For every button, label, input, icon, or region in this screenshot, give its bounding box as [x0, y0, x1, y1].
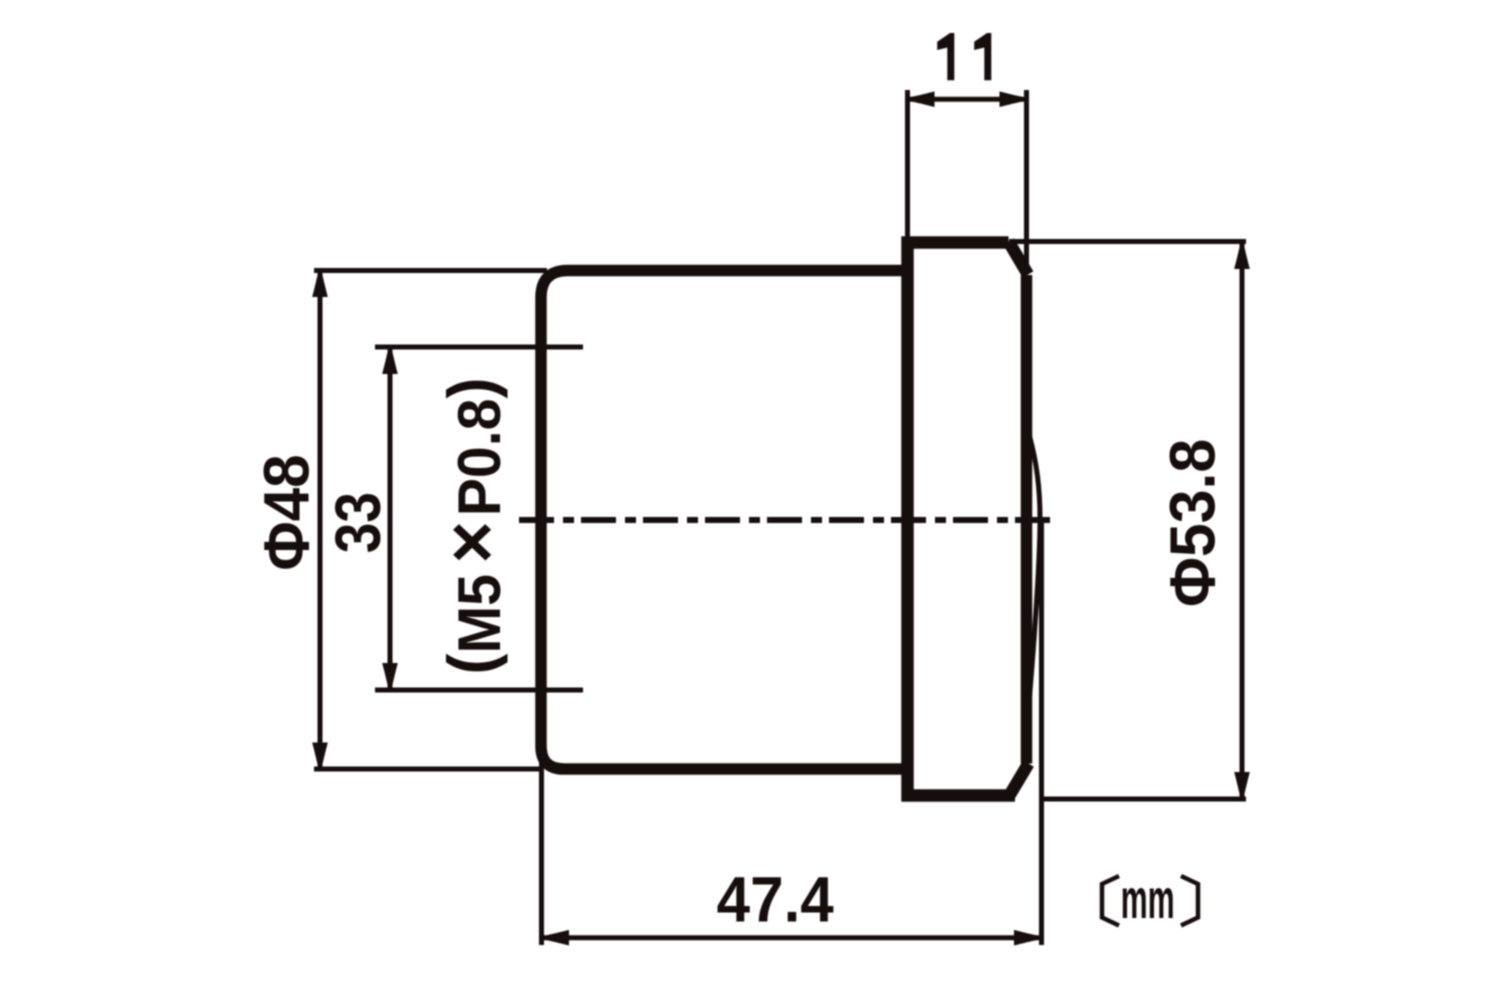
dim 11: dimension line	[910, 97, 1024, 102]
dim 33: top thread extension line	[375, 345, 583, 350]
arrowhead phi48 down	[312, 743, 328, 772]
dim 47.4: right extension line	[1039, 523, 1044, 945]
arrowhead 33 down	[382, 663, 398, 692]
svg-text:33: 33	[322, 492, 394, 553]
dim phi48: bottom extension line	[314, 767, 540, 772]
arrowhead phi53.8 up	[1234, 241, 1250, 270]
arrowhead 11 right	[1000, 91, 1029, 107]
label 11	[937, 33, 991, 80]
arrowhead phi53.8 down	[1234, 772, 1250, 801]
right tortoise bracket	[1181, 876, 1198, 926]
svg-text:47.4: 47.4	[717, 865, 835, 936]
svg-text:Φ48: Φ48	[252, 454, 323, 570]
dim 11: left extension line	[905, 90, 910, 243]
lens body barrel outline	[541, 271, 908, 770]
svg-text:Φ53.8: Φ53.8	[1157, 439, 1229, 607]
flange bottom-right chamfer	[1010, 764, 1029, 795]
arrowhead 33 up	[382, 346, 398, 375]
flange top edge	[902, 236, 1009, 249]
arrowhead 47.4 right	[1014, 930, 1043, 946]
svg-text:mm: mm	[1121, 867, 1175, 930]
dim phi53.8: bottom extension line	[1041, 797, 1246, 802]
flange top-right chamfer	[1009, 242, 1029, 275]
dim 47.4: dimension line	[543, 935, 1040, 940]
arrowhead 11 left	[906, 91, 935, 107]
arrowhead phi48 up	[312, 269, 328, 298]
dim 33: bottom thread extension line	[375, 688, 583, 693]
dim phi48: top extension line	[314, 268, 547, 273]
arrowhead 47.4 left	[541, 930, 570, 946]
dim 33: dimension line	[388, 349, 393, 688]
dim 47.4: left extension line	[539, 737, 544, 945]
lens front surface arc	[1030, 436, 1041, 697]
dim phi53.8: dimension line	[1240, 243, 1245, 798]
left tortoise bracket	[1102, 876, 1119, 926]
flange bottom edge	[902, 789, 1016, 802]
dim phi48: dimension line	[318, 272, 323, 767]
flange left edge	[901, 237, 914, 802]
flange right edge	[1021, 275, 1033, 764]
dim 11: right extension line	[1024, 90, 1029, 266]
dim phi53.8: top extension line	[1009, 239, 1246, 244]
centerline	[519, 517, 1058, 523]
